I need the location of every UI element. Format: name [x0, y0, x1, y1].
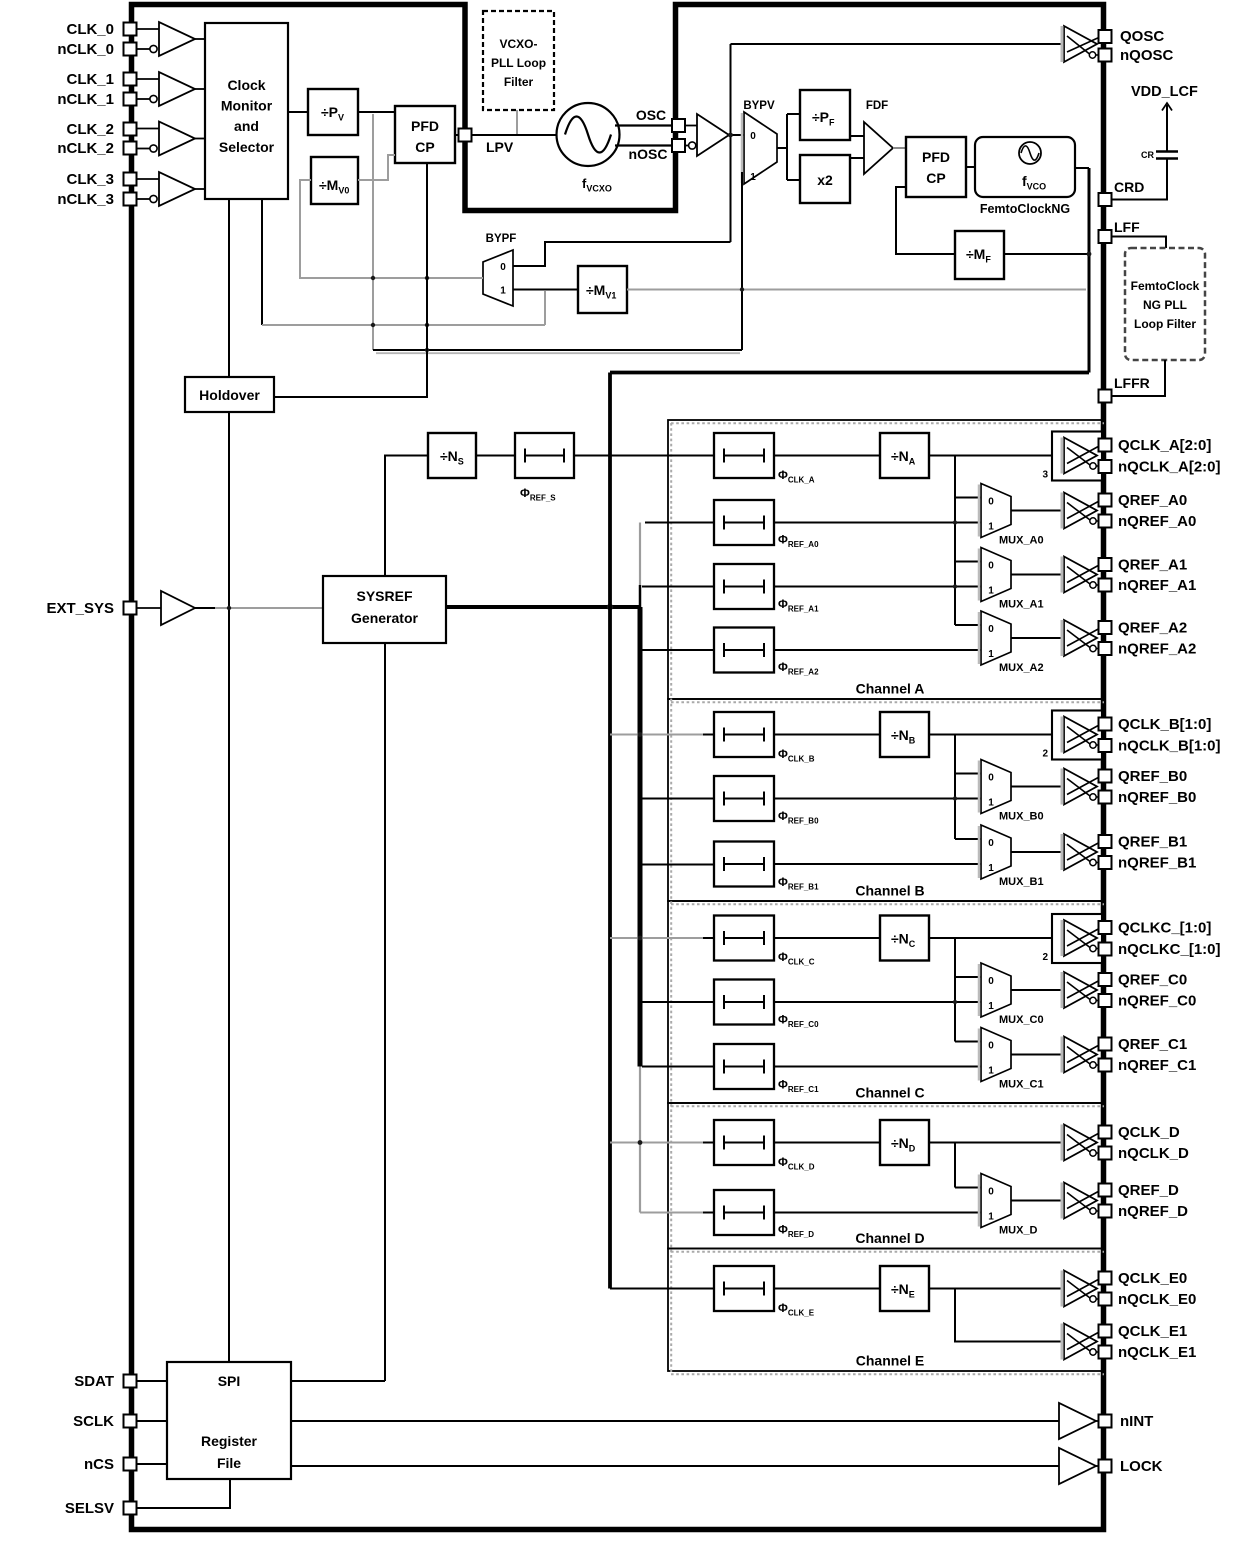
- svg-text:1: 1: [988, 798, 994, 809]
- svg-text:QREF_B0: QREF_B0: [1118, 768, 1187, 785]
- svg-text:VDD_LCF: VDD_LCF: [1131, 84, 1198, 100]
- svg-text:BYPV: BYPV: [743, 100, 775, 112]
- svg-text:Holdover: Holdover: [199, 387, 260, 403]
- svg-text:0: 0: [988, 838, 994, 849]
- svg-text:QCLK_E1: QCLK_E1: [1118, 1323, 1187, 1340]
- svg-text:0: 0: [988, 976, 994, 987]
- svg-text:nQREF_A0: nQREF_A0: [1118, 513, 1196, 530]
- svg-text:Monitor: Monitor: [221, 98, 273, 114]
- svg-text:Channel E: Channel E: [856, 1353, 924, 1369]
- svg-text:Generator: Generator: [351, 610, 418, 626]
- svg-text:Loop Filter: Loop Filter: [1134, 317, 1196, 331]
- svg-text:Channel B: Channel B: [855, 883, 924, 899]
- svg-text:QREF_D: QREF_D: [1118, 1182, 1179, 1199]
- svg-text:3: 3: [1042, 470, 1048, 481]
- svg-text:MUX_A1: MUX_A1: [999, 599, 1044, 611]
- svg-text:Register: Register: [201, 1433, 258, 1449]
- svg-text:BYPF: BYPF: [486, 233, 517, 245]
- svg-text:CLK_1: CLK_1: [66, 71, 114, 88]
- svg-text:nQCLK_E0: nQCLK_E0: [1118, 1291, 1196, 1308]
- svg-text:0: 0: [988, 561, 994, 572]
- svg-text:QREF_A1: QREF_A1: [1118, 556, 1187, 573]
- svg-text:0: 0: [988, 773, 994, 784]
- svg-text:nQREF_D: nQREF_D: [1118, 1203, 1188, 1220]
- svg-text:QCLK_A[2:0]: QCLK_A[2:0]: [1118, 437, 1211, 454]
- svg-text:0: 0: [988, 624, 994, 635]
- svg-text:2: 2: [1042, 952, 1048, 963]
- svg-text:nQCLK_B[1:0]: nQCLK_B[1:0]: [1118, 737, 1221, 754]
- svg-text:nINT: nINT: [1120, 1413, 1153, 1430]
- svg-text:CR: CR: [1141, 150, 1154, 160]
- svg-text:OSC: OSC: [636, 107, 666, 123]
- svg-text:nQCLK_A[2:0]: nQCLK_A[2:0]: [1118, 458, 1221, 475]
- svg-text:nOSC: nOSC: [629, 146, 668, 162]
- svg-text:SPI: SPI: [218, 1373, 241, 1389]
- svg-text:SDAT: SDAT: [74, 1373, 114, 1390]
- svg-text:0: 0: [988, 1187, 994, 1198]
- svg-text:nQREF_C0: nQREF_C0: [1118, 992, 1196, 1009]
- svg-text:1: 1: [500, 286, 506, 297]
- svg-text:PFD: PFD: [922, 149, 950, 165]
- svg-text:LFFR: LFFR: [1114, 375, 1150, 391]
- svg-text:File: File: [217, 1455, 241, 1471]
- svg-text:nQCLK_D: nQCLK_D: [1118, 1145, 1189, 1162]
- svg-text:0: 0: [988, 1041, 994, 1052]
- svg-text:QREF_A2: QREF_A2: [1118, 619, 1187, 636]
- svg-text:CLK_0: CLK_0: [66, 21, 114, 38]
- svg-text:and: and: [234, 118, 259, 134]
- svg-text:QCLK_D: QCLK_D: [1118, 1124, 1180, 1141]
- svg-text:nCLK_0: nCLK_0: [57, 41, 114, 58]
- svg-text:FemtoClockNG: FemtoClockNG: [980, 202, 1070, 216]
- svg-text:MUX_A2: MUX_A2: [999, 662, 1044, 674]
- svg-text:0: 0: [500, 262, 506, 273]
- svg-text:LFF: LFF: [1114, 219, 1140, 235]
- svg-text:nQREF_B1: nQREF_B1: [1118, 854, 1196, 871]
- svg-text:1: 1: [750, 172, 756, 183]
- svg-text:CLK_3: CLK_3: [66, 171, 114, 188]
- svg-text:SYSREF: SYSREF: [356, 588, 412, 604]
- svg-text:MUX_B1: MUX_B1: [999, 876, 1044, 888]
- svg-text:EXT_SYS: EXT_SYS: [46, 600, 114, 617]
- svg-text:MUX_C1: MUX_C1: [999, 1079, 1044, 1091]
- svg-text:MUX_C0: MUX_C0: [999, 1014, 1044, 1026]
- svg-text:1: 1: [988, 863, 994, 874]
- svg-text:MUX_D: MUX_D: [999, 1225, 1038, 1237]
- svg-text:0: 0: [988, 497, 994, 508]
- svg-text:MUX_A0: MUX_A0: [999, 535, 1044, 547]
- svg-text:nQREF_B0: nQREF_B0: [1118, 789, 1196, 806]
- svg-text:x2: x2: [817, 172, 833, 188]
- svg-text:nQREF_C1: nQREF_C1: [1118, 1057, 1196, 1074]
- svg-text:nQCLK_E1: nQCLK_E1: [1118, 1344, 1196, 1361]
- svg-text:0: 0: [750, 131, 756, 142]
- svg-text:1: 1: [988, 1066, 994, 1077]
- svg-text:Channel C: Channel C: [855, 1085, 924, 1101]
- svg-text:QOSC: QOSC: [1120, 28, 1164, 45]
- svg-text:nQREF_A1: nQREF_A1: [1118, 577, 1196, 594]
- svg-text:nQREF_A2: nQREF_A2: [1118, 640, 1196, 657]
- svg-text:Channel A: Channel A: [856, 681, 925, 697]
- svg-text:nCS: nCS: [84, 1456, 114, 1473]
- svg-text:FemtoClock: FemtoClock: [1131, 279, 1200, 293]
- svg-text:PFD: PFD: [411, 118, 439, 134]
- svg-text:VCXO-: VCXO-: [499, 37, 537, 51]
- svg-text:QCLK_B[1:0]: QCLK_B[1:0]: [1118, 716, 1211, 733]
- svg-text:CLK_2: CLK_2: [66, 121, 114, 138]
- svg-text:CP: CP: [926, 170, 945, 186]
- svg-text:SELSV: SELSV: [65, 1500, 114, 1517]
- svg-text:2: 2: [1042, 749, 1048, 760]
- svg-text:NG PLL: NG PLL: [1143, 298, 1187, 312]
- svg-text:Clock: Clock: [227, 77, 265, 93]
- svg-text:CRD: CRD: [1114, 179, 1144, 195]
- svg-text:1: 1: [988, 649, 994, 660]
- svg-text:1: 1: [988, 522, 994, 533]
- svg-text:nQCLKC_[1:0]: nQCLKC_[1:0]: [1118, 941, 1221, 958]
- svg-text:nCLK_1: nCLK_1: [57, 91, 114, 108]
- svg-text:MUX_B0: MUX_B0: [999, 811, 1044, 823]
- svg-text:1: 1: [988, 1001, 994, 1012]
- svg-text:LOCK: LOCK: [1120, 1458, 1163, 1475]
- svg-text:QCLK_E0: QCLK_E0: [1118, 1270, 1187, 1287]
- svg-text:FDF: FDF: [866, 100, 888, 112]
- svg-text:1: 1: [988, 586, 994, 597]
- svg-text:LPV: LPV: [486, 139, 514, 155]
- svg-text:Filter: Filter: [504, 75, 534, 89]
- svg-text:PLL Loop: PLL Loop: [491, 56, 546, 70]
- svg-text:Selector: Selector: [219, 139, 275, 155]
- svg-text:nQOSC: nQOSC: [1120, 47, 1174, 64]
- svg-text:SCLK: SCLK: [73, 1413, 114, 1430]
- svg-text:QREF_C1: QREF_C1: [1118, 1036, 1187, 1053]
- svg-text:Channel D: Channel D: [855, 1230, 924, 1246]
- svg-text:QREF_B1: QREF_B1: [1118, 833, 1187, 850]
- svg-text:nCLK_3: nCLK_3: [57, 191, 114, 208]
- svg-text:CP: CP: [415, 139, 434, 155]
- svg-text:QREF_A0: QREF_A0: [1118, 492, 1187, 509]
- svg-text:1: 1: [988, 1212, 994, 1223]
- svg-text:QCLKC_[1:0]: QCLKC_[1:0]: [1118, 919, 1211, 936]
- svg-text:nCLK_2: nCLK_2: [57, 140, 114, 157]
- svg-text:QREF_C0: QREF_C0: [1118, 971, 1187, 988]
